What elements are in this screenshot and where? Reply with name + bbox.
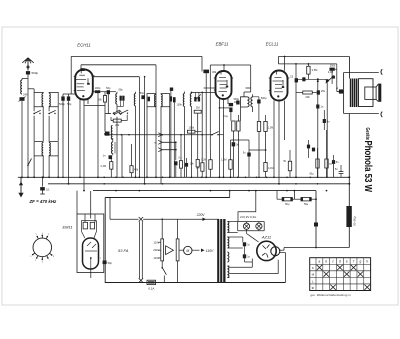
- ECH11 internal electrodes: [80, 71, 82, 74]
- EM11 target anodes: [83, 222, 87, 229]
- power transformer windings: [227, 222, 229, 233]
- motor rotor triangle: [166, 246, 174, 255]
- capacitor 50p osc: [107, 90, 110, 94]
- wire box top jog: [229, 191, 231, 198]
- resistor 20k osc: [113, 119, 121, 122]
- fuse 0.1A: [147, 280, 156, 284]
- resistor 0.5M: [307, 66, 310, 74]
- svg-text:2×6,3V 0,3A: 2×6,3V 0,3A: [240, 215, 256, 219]
- resistor av b: [264, 121, 267, 131]
- EBF11 internal electrodes: [220, 72, 222, 75]
- wire EM11 cathode: [90, 267, 92, 278]
- EM11 neck: [82, 232, 85, 239]
- svg-text:b: b: [325, 259, 327, 263]
- capacitor 50p grid: [67, 96, 70, 100]
- wire lamp diagonal: [247, 234, 259, 243]
- svg-text:240: 240: [23, 93, 28, 97]
- wire rail C: [93, 190, 316, 192]
- capacitor above IF2: [170, 88, 173, 91]
- coil band filter 1: [34, 92, 43, 106]
- svg-text:20k: 20k: [305, 95, 310, 99]
- twisted pair bottom crossing: [139, 278, 143, 282]
- switch contact S1: [33, 113, 35, 115]
- switch position table: [310, 258, 371, 291]
- svg-text:A: A: [335, 86, 338, 90]
- tube EBF11: [216, 71, 232, 99]
- capacitor oscillator padder: [105, 132, 110, 136]
- capacitor 25n coupling: [295, 64, 297, 177]
- wire screen supply upper: [71, 55, 202, 57]
- svg-text:500p: 500p: [261, 97, 267, 100]
- svg-text:K: K: [312, 266, 314, 270]
- wire antenna down: [27, 75, 29, 79]
- resistor 40k af3: [130, 166, 133, 173]
- capacitor 500p grid: [61, 96, 64, 100]
- capacitor 1n af2: [109, 155, 113, 159]
- power unit box: [105, 198, 285, 283]
- motor switch: [161, 261, 163, 268]
- coil L1 antenna: [21, 80, 22, 94]
- svg-text:50p: 50p: [119, 88, 124, 91]
- svg-text:100k: 100k: [177, 104, 183, 107]
- svg-text:ECH11: ECH11: [77, 43, 91, 48]
- potentiometer wiper: [326, 79, 329, 82]
- capacitor 1n af: [316, 105, 319, 109]
- capacitor tuning IF1a: [120, 96, 122, 101]
- resistor 40k: [229, 103, 233, 106]
- terminal hook lower: [381, 112, 382, 117]
- svg-text:h: h: [366, 259, 368, 263]
- resistor 1.5M: [229, 160, 232, 170]
- coil IF1 secondary: [134, 94, 135, 106]
- svg-text:50p: 50p: [106, 86, 111, 90]
- coil IF2 secondary unit: [161, 94, 170, 107]
- svg-text:500p: 500p: [32, 71, 39, 75]
- resistor 30k anode: [203, 70, 209, 74]
- AZ11 electrodes: [263, 246, 267, 250]
- wire IF5 feed drop: [250, 65, 252, 88]
- switch contact S7: [211, 134, 213, 136]
- resistor 20k af: [303, 91, 313, 94]
- EBF11 pin wires: [219, 99, 221, 177]
- resistor det a: [232, 121, 235, 131]
- svg-text:0,1µ: 0,1µ: [223, 115, 228, 118]
- resistor av a: [257, 121, 260, 131]
- junction dot volume: [317, 78, 319, 80]
- wire ECL11 top feed: [284, 57, 286, 71]
- ECH11 top cap: [80, 68, 84, 71]
- switch contact S3: [28, 159, 32, 167]
- svg-text:500p: 500p: [59, 102, 65, 106]
- arrow 110V: [201, 248, 205, 252]
- svg-text:AZ11: AZ11: [261, 235, 271, 240]
- trimmer capacitor 240: [20, 97, 25, 101]
- wire osc cathode: [84, 105, 105, 107]
- wire long vertical x156: [155, 65, 157, 178]
- switch contact S6: [114, 113, 116, 115]
- ECL11 pin wires: [273, 101, 275, 178]
- wire x202 down: [201, 92, 203, 162]
- wire HV to AZ11 left: [251, 259, 253, 268]
- svg-text:220V: 220V: [196, 213, 206, 217]
- wire EBF11 anode drop: [201, 56, 203, 71]
- resistor 70: [325, 159, 328, 168]
- EM11 internal: [85, 250, 97, 252]
- svg-text:2M: 2M: [196, 106, 200, 110]
- svg-text:Phonola 53 W: Phonola 53 W: [362, 141, 373, 193]
- coil osc b: [190, 94, 191, 107]
- capacitor 500p IF5a: [236, 101, 239, 105]
- capacitor 500p antenna: [26, 71, 30, 74]
- wire EBF anode branch: [220, 107, 231, 109]
- capacitor pickup 1: [174, 161, 177, 165]
- winding leads: [227, 221, 237, 223]
- wire osc coils down: [184, 106, 186, 177]
- wire EM11 grid feed: [90, 191, 92, 219]
- wire EM11 anode feeds: [84, 214, 86, 222]
- coil osc filter 1: [34, 142, 43, 156]
- svg-text:30k: 30k: [212, 70, 217, 74]
- coil oscillator: [111, 126, 112, 140]
- capacitor det: [247, 153, 250, 157]
- svg-text:53 FA: 53 FA: [118, 248, 129, 253]
- wire af bus: [296, 78, 326, 80]
- resistor 10k tap: [201, 163, 204, 172]
- twisted pair top crossing: [139, 217, 143, 221]
- wire output supply rail: [278, 56, 349, 58]
- coil IF5 primary unit: [241, 97, 248, 107]
- wire mains to transformer: [143, 218, 219, 220]
- wire pickup leads: [180, 134, 182, 136]
- arrow 220V: [202, 217, 206, 221]
- motor wires: [161, 219, 163, 239]
- wire grid caps: [62, 94, 64, 96]
- wire AF line: [104, 134, 212, 136]
- motor M circle: [184, 246, 192, 254]
- capacitor 50p EM11: [103, 261, 107, 265]
- svg-text:Geräte: Geräte: [364, 128, 370, 141]
- electrolytic capacitor 50uF: [346, 206, 351, 227]
- wire pot right leg: [326, 82, 328, 177]
- wire 250k down: [336, 69, 338, 91]
- wire filament return riser: [284, 253, 286, 283]
- wire lamp bottom: [238, 230, 265, 232]
- capacitor 1n az a: [243, 242, 246, 246]
- pickup input arrows: [158, 133, 162, 137]
- capacitor grid blob: [302, 77, 305, 81]
- wire IF5 down: [240, 107, 242, 121]
- capacitor tuning IF1b: [122, 96, 124, 101]
- wire osc frame left: [104, 114, 106, 132]
- coil IF5 secondary: [251, 97, 253, 107]
- capacitor 8n: [332, 160, 335, 164]
- wire vertical x144: [144, 77, 146, 184]
- speaker cone: [376, 84, 378, 87]
- resistor 0.2M: [209, 160, 212, 170]
- wire output primary left: [343, 73, 345, 114]
- capacitor 4n: [323, 119, 326, 123]
- svg-text:ECL11: ECL11: [266, 42, 279, 47]
- ECL11 internal electrodes: [276, 71, 278, 74]
- svg-text:110V: 110V: [206, 249, 214, 253]
- wire x122 down: [121, 135, 123, 178]
- wire HV riser left: [315, 191, 317, 248]
- svg-text:g: g: [359, 259, 361, 263]
- tube EM11: [83, 238, 99, 269]
- resistor 0.1M: [264, 163, 267, 172]
- resistor grid osc: [103, 96, 106, 103]
- resistor 2M: [194, 110, 201, 113]
- wire smoothing feed: [293, 191, 295, 200]
- resistor pickup: [179, 161, 182, 169]
- wire smoothing: [277, 198, 282, 200]
- tube ECL11: [271, 71, 288, 101]
- tube ECH11: [75, 70, 93, 100]
- wire osc grid bus: [192, 91, 216, 93]
- svg-text:ger. Wellenschalterstellung m: ger. Wellenschalterstellung m: [311, 293, 352, 297]
- resistor det b: [237, 121, 240, 131]
- lamp 1: [243, 223, 249, 229]
- motor winding bar right: [176, 239, 179, 261]
- capacitor 0.1u det: [229, 108, 232, 113]
- junction dots rails: [62, 176, 64, 178]
- switch contact S5: [121, 112, 123, 114]
- wire rail B: [48, 183, 349, 185]
- wire EBF11 top feed: [223, 65, 225, 70]
- resistor 50u: [316, 159, 319, 168]
- switch osc diagonal: [197, 94, 201, 98]
- wire mains feed: [109, 198, 111, 220]
- svg-text:0,5M: 0,5M: [312, 69, 318, 72]
- svg-text:100k: 100k: [188, 126, 194, 130]
- resistor 100p: [95, 90, 101, 93]
- svg-text:50µ: 50µ: [309, 173, 314, 176]
- output transformer core: [350, 79, 359, 108]
- wire EBF11 anode line: [210, 64, 250, 66]
- wire lamp top: [238, 221, 265, 223]
- svg-text:50p: 50p: [140, 92, 145, 95]
- capacitor node blob: [314, 223, 318, 227]
- resistor 0.3M af2: [110, 162, 113, 170]
- node A anode junction: [339, 89, 343, 93]
- resistor 50k output: [288, 161, 291, 171]
- coil band filter 2: [49, 92, 58, 106]
- ECH11 pin wires: [79, 100, 81, 178]
- capacitor 5n tone: [340, 165, 342, 171]
- mains twisted pair wires: [139, 221, 141, 278]
- svg-text:50µ: 50µ: [285, 203, 290, 206]
- speaker magnet bar: [378, 84, 381, 102]
- wires osc components: [93, 91, 95, 93]
- wire filter1 down: [33, 107, 35, 112]
- svg-text:50µ: 50µ: [304, 203, 309, 206]
- svg-text:d: d: [339, 259, 341, 263]
- antenna: [27, 58, 29, 71]
- svg-text:0,1A: 0,1A: [148, 287, 154, 291]
- ground arrow: [20, 177, 22, 193]
- wire EBF grid: [204, 87, 216, 89]
- wire screen feed: [93, 76, 140, 78]
- svg-text:0,1M: 0,1M: [268, 167, 273, 170]
- speaker inner: [365, 87, 376, 99]
- wire x210 grid leak: [209, 71, 211, 150]
- coil AF choke: [112, 142, 113, 154]
- svg-text:ZF = 470 kHz: ZF = 470 kHz: [29, 199, 58, 204]
- svg-text:0,1: 0,1: [46, 188, 50, 192]
- wires az caps: [242, 237, 244, 242]
- capacitor osc grid b: [198, 97, 200, 102]
- capacitor IF2 out a: [170, 96, 172, 101]
- power transformer core: [217, 219, 219, 283]
- svg-text:0,3M: 0,3M: [101, 165, 106, 168]
- capacitor IF2 out b: [173, 97, 176, 102]
- capacitor pickup 2: [185, 163, 188, 167]
- wire AZ11 output: [280, 249, 284, 251]
- svg-text:100p: 100p: [95, 86, 101, 90]
- wire IF2 down: [146, 107, 148, 178]
- wire L1 down: [21, 101, 23, 177]
- wire HV to AZ11 right: [277, 260, 279, 274]
- svg-text:50p: 50p: [108, 261, 113, 265]
- wire HV return lower: [230, 266, 253, 268]
- svg-text:a: a: [319, 259, 321, 263]
- coil IF1 primary: [116, 94, 117, 105]
- EM11 shield box: [77, 214, 104, 273]
- wire ECL anode branch: [277, 57, 279, 64]
- svg-text:e: e: [346, 259, 348, 263]
- motor winding bar left: [161, 239, 164, 261]
- wire box bottom continues: [105, 282, 147, 284]
- svg-text:40k: 40k: [134, 168, 139, 172]
- wire speaker feed from top: [349, 57, 351, 79]
- wire filter1 top: [33, 89, 35, 93]
- resistor 250k: [336, 64, 338, 69]
- resistor smoothing a: [282, 198, 292, 201]
- terminal hook upper: [381, 69, 382, 74]
- capacitor IF2 internal: [148, 97, 150, 102]
- wire filter2 down: [48, 107, 50, 112]
- wire heater feed: [238, 191, 256, 222]
- resistor smoothing b: [301, 198, 311, 201]
- svg-text:25n: 25n: [321, 90, 326, 93]
- table X marks: [317, 265, 322, 270]
- coil osc filter 2: [49, 142, 58, 156]
- capacitor 50p IF2: [141, 95, 145, 99]
- svg-text:250k: 250k: [330, 64, 336, 67]
- switch contact S4: [113, 112, 115, 114]
- svg-text:EM11: EM11: [63, 225, 73, 230]
- coil IF2 primary unit: [147, 94, 156, 107]
- svg-text:M: M: [186, 249, 189, 253]
- capacitor cluster feedback: [307, 145, 310, 149]
- lamp 2: [256, 223, 262, 229]
- wire rail A (ground bus): [18, 176, 349, 178]
- wire osc filters down: [33, 156, 35, 177]
- svg-text:EBF11: EBF11: [216, 42, 229, 47]
- wire af coupling: [249, 149, 267, 151]
- capacitor 25n af: [317, 90, 320, 94]
- resistor 10k: [196, 159, 199, 167]
- switch contact S2: [48, 113, 50, 115]
- svg-text:50p: 50p: [67, 102, 72, 106]
- capacitor osc grid a: [194, 97, 196, 102]
- wire x349 down: [348, 114, 350, 248]
- tube AZ11: [257, 241, 276, 260]
- svg-text:0,2M: 0,2M: [201, 159, 206, 162]
- AZ11 small envelope: [271, 247, 280, 256]
- wire vertical x139: [138, 77, 140, 178]
- capacitor 1n az b: [243, 254, 246, 258]
- svg-text:50+50µ: 50+50µ: [352, 216, 356, 226]
- coil osc a: [183, 94, 184, 107]
- wire HV return lower 2: [230, 273, 279, 275]
- svg-text:1,5M: 1,5M: [221, 159, 226, 162]
- svg-text:500p: 500p: [234, 98, 240, 101]
- wire IF1 down: [116, 104, 118, 112]
- svg-text:1,2M: 1,2M: [268, 127, 273, 130]
- speaker frame: [359, 79, 374, 107]
- capacitor 0.1u ground: [42, 177, 44, 186]
- tube socket underside view: [33, 238, 52, 257]
- wire motor right down: [177, 261, 179, 283]
- capacitor 500p IF5b: [257, 100, 260, 104]
- wire ECH11 anode top: [81, 64, 156, 66]
- capacitor 5n det: [232, 142, 236, 146]
- resistor 100k: [187, 130, 195, 133]
